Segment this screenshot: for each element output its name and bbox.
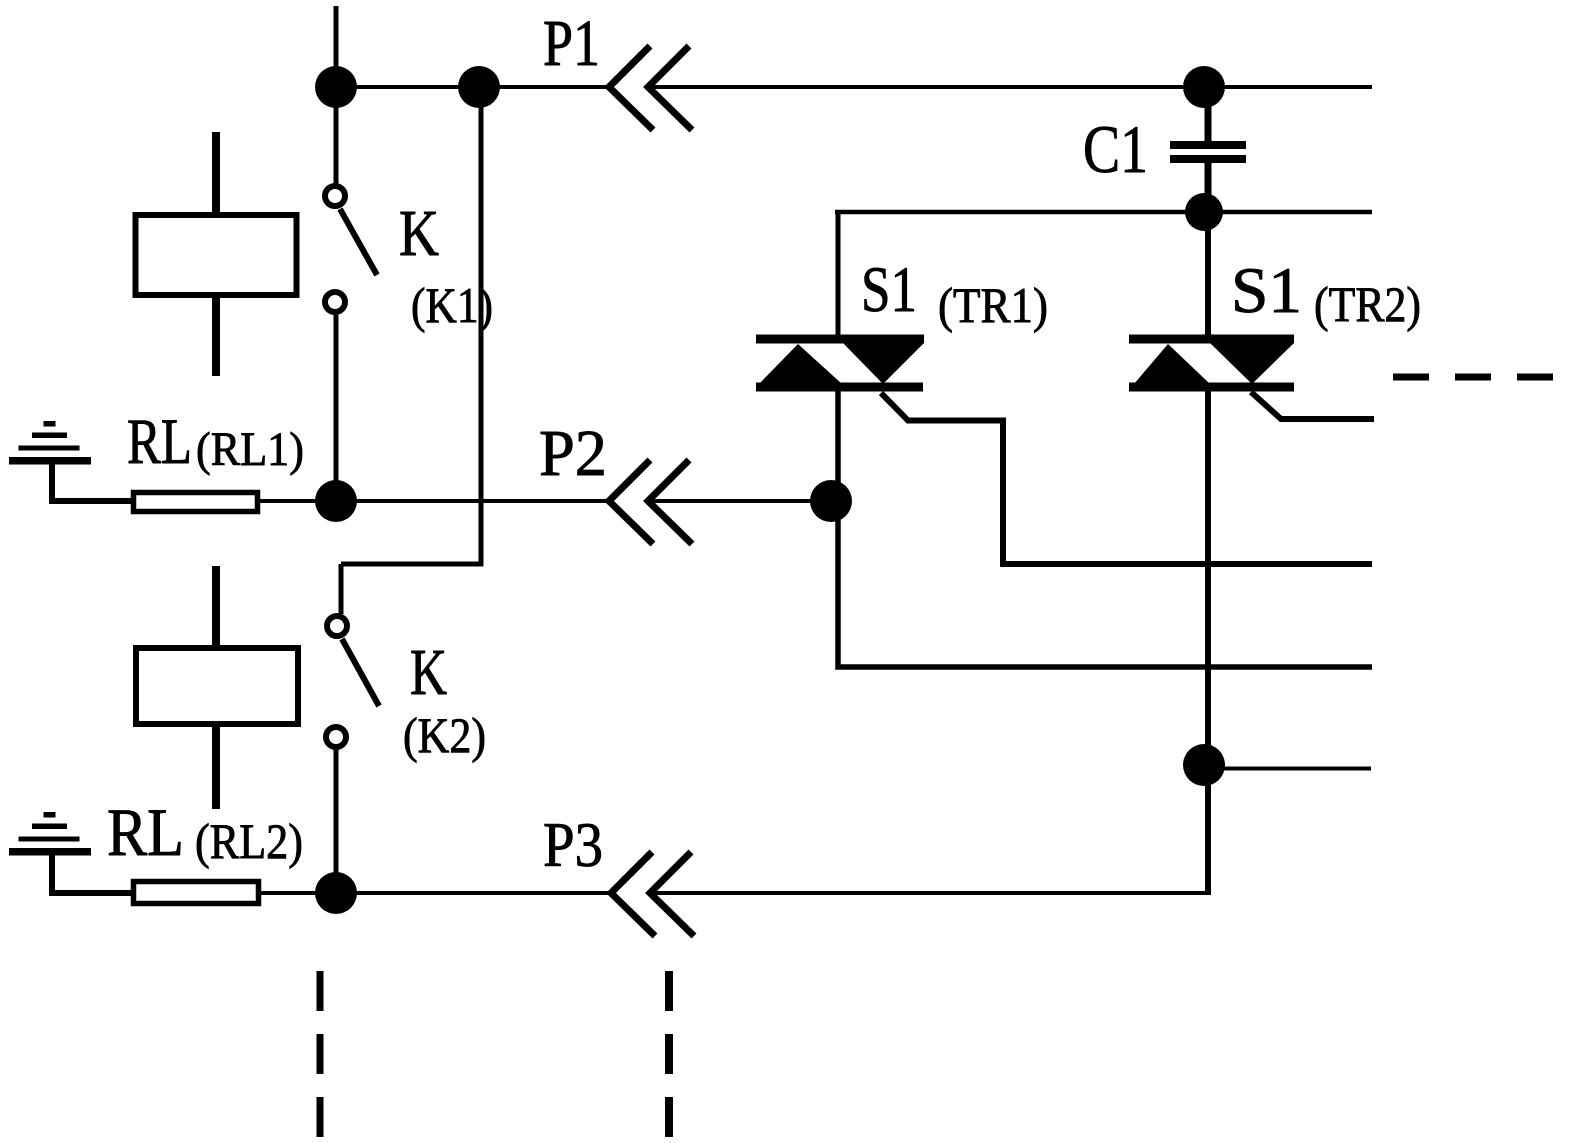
wire TR1 anode lead up: [836, 212, 841, 336]
wire P2 left segment: [336, 499, 609, 503]
svg-text:(K1): (K1): [411, 277, 493, 333]
node junction dot P2 at TR1: [810, 480, 852, 522]
switch K2 bottom contact: [326, 727, 346, 747]
svg-text:(TR1): (TR1): [938, 277, 1048, 333]
svg-text:K: K: [399, 197, 439, 270]
wire TR1 gate path: [881, 393, 1372, 564]
capacitor C1 top node dot: [1183, 66, 1225, 108]
switch K1 blade: [340, 209, 377, 275]
wire TR2 gate path: [1251, 392, 1374, 419]
ground 2: [9, 812, 91, 856]
wire ground1 stem: [52, 462, 133, 501]
wire C1 top lead: [1205, 87, 1212, 142]
svg-text:(K2): (K2): [403, 707, 486, 763]
node junction dot RL1: [315, 480, 357, 522]
triac TR2 left triangle: [1134, 344, 1210, 384]
triac TR1: [756, 212, 1372, 667]
wire TR1 cathode lead down and bottom horizontal: [838, 391, 1372, 667]
svg-text:(RL1): (RL1): [196, 423, 304, 476]
wire top-left vertical stub: [334, 6, 339, 87]
dashed line right of TR2: [1393, 374, 1569, 381]
arrow chevrons P3: [611, 852, 694, 936]
triac TR2 top bar: [1129, 335, 1294, 344]
wire K2 bottom contact down: [334, 750, 339, 893]
wire resistor RL2 to node: [261, 891, 336, 895]
svg-text:RL: RL: [127, 406, 192, 478]
relay coil K2 top lead: [212, 566, 220, 648]
relay coil K1: [136, 215, 297, 295]
node junction dot RL2: [315, 872, 357, 914]
svg-text:P1: P1: [543, 7, 600, 80]
switch K1 bottom contact: [325, 292, 345, 312]
wire P2 right segment: [652, 499, 834, 503]
wire thin right from lower dot: [1204, 767, 1371, 771]
switch K1 top contact: [325, 186, 345, 206]
wire vertical from right P1 dot down: [479, 87, 484, 566]
svg-text:P2: P2: [539, 417, 607, 490]
wire TR2 cathode lead down: [1205, 391, 1211, 895]
svg-text:S1: S1: [1231, 255, 1302, 327]
dashed vertical line left: [317, 971, 324, 1143]
arrow chevrons P2: [609, 460, 692, 544]
triac TR1 right triangle: [843, 343, 924, 384]
wire P3 left segment: [336, 891, 611, 895]
svg-text:K: K: [410, 636, 447, 709]
svg-text:P3: P3: [543, 809, 603, 880]
wire horizontal jog to K2: [341, 562, 483, 567]
wire TR2 anode lead up: [1205, 212, 1211, 336]
wire ground2 stem: [52, 853, 133, 893]
svg-text:(TR2): (TR2): [1314, 276, 1421, 332]
triac TR2 bottom bar: [1129, 383, 1294, 392]
triac TR1 bottom bar: [756, 383, 923, 392]
relay coil K2 bottom lead: [212, 727, 220, 809]
wire P3 right segment: [652, 891, 1210, 895]
node junction dot right on P1: [458, 66, 500, 108]
wire resistor RL1 to node: [260, 499, 336, 503]
node junction dot left on P1: [315, 66, 357, 108]
triac TR1 top bar: [756, 335, 924, 344]
wire from P1 dot down to K1: [334, 87, 339, 184]
switch K2 top contact: [327, 616, 347, 636]
wire P1 horizontal right segment: [652, 85, 1372, 89]
node junction dot right lower: [1183, 744, 1225, 786]
svg-text:C1: C1: [1083, 111, 1148, 187]
arrow chevrons P1: [609, 46, 692, 130]
resistor RL2: [134, 882, 259, 904]
dashed vertical line right: [665, 971, 673, 1143]
capacitor C1 bottom node dot: [1185, 193, 1223, 231]
resistor RL1: [134, 493, 258, 512]
capacitor C1 plates: [1170, 141, 1246, 149]
triac TR1 left triangle: [759, 344, 842, 384]
relay coil K2: [136, 648, 298, 724]
svg-text:RL: RL: [107, 794, 184, 870]
wire C1 bottom lead: [1205, 163, 1212, 213]
svg-text:(RL2): (RL2): [195, 813, 303, 869]
ground 1: [9, 421, 91, 465]
relay coil K1 bottom lead: [212, 298, 220, 376]
relay coil K1 top lead: [212, 132, 220, 212]
switch K2 blade: [342, 639, 379, 706]
triac TR2 right triangle: [1210, 343, 1294, 384]
wire vertical down to K2 top contact: [339, 564, 344, 614]
triac TR2: [1129, 212, 1374, 895]
wire top bus to C1 from TR1: [835, 210, 1372, 215]
wire P1 horizontal left segment: [336, 85, 609, 89]
svg-text:S1: S1: [861, 254, 917, 326]
wire from K1 bottom contact to RL1 node: [334, 315, 339, 501]
